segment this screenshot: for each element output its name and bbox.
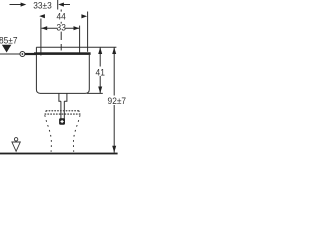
node centerline dashes <box>60 10 62 51</box>
node left extension line x=41 <box>40 19 42 56</box>
svg-text:92±7: 92±7 <box>108 96 127 107</box>
node right extension line x=87.4 <box>87 12 89 52</box>
pipe clamp nut <box>59 118 65 124</box>
pan right side <box>73 116 79 152</box>
supply connection circle <box>20 52 25 57</box>
svg-text:33±3: 33±3 <box>33 0 52 11</box>
pan rim bottom dotted row <box>45 113 80 115</box>
wire dimension 33±3 left arrow <box>10 3 27 7</box>
water level triangle 85±7 <box>2 45 11 53</box>
cistern lid thick line <box>34 52 91 55</box>
wire supply thick segment <box>25 53 36 55</box>
wire dimension 44 right arrowhead <box>81 14 87 18</box>
wire dimension 33 line with arrows <box>42 26 80 30</box>
node extension line for 33±3 <box>57 0 59 10</box>
wire water supply line <box>0 53 20 55</box>
pan left side <box>45 116 51 152</box>
dimension line 92±7 <box>112 47 116 152</box>
flush pipe <box>61 101 64 121</box>
label 41 <box>95 67 105 78</box>
pan rim top dotted row <box>46 110 79 112</box>
wire dimension 33±3 right arrow <box>58 3 70 7</box>
floor level symbol <box>12 138 20 152</box>
pan rim right tick <box>79 111 80 114</box>
pan dotted outline <box>45 111 80 152</box>
floor line <box>0 153 118 155</box>
dimension line 41 <box>98 47 102 93</box>
node bottom extension line <box>87 92 103 94</box>
pan rim left tick <box>45 111 46 114</box>
flush pipe collar <box>59 93 67 101</box>
svg-text:85±7: 85±7 <box>0 35 18 46</box>
label 92±7 <box>107 96 128 107</box>
cistern body <box>36 47 89 93</box>
wire dimension 44 left arrowhead <box>39 14 45 18</box>
wire top extension line <box>36 46 116 48</box>
svg-text:44: 44 <box>56 11 65 22</box>
label 33 <box>57 22 66 33</box>
node right extension line x=79.6 <box>79 26 81 54</box>
svg-text:33: 33 <box>57 22 66 33</box>
svg-text:41: 41 <box>96 67 105 78</box>
